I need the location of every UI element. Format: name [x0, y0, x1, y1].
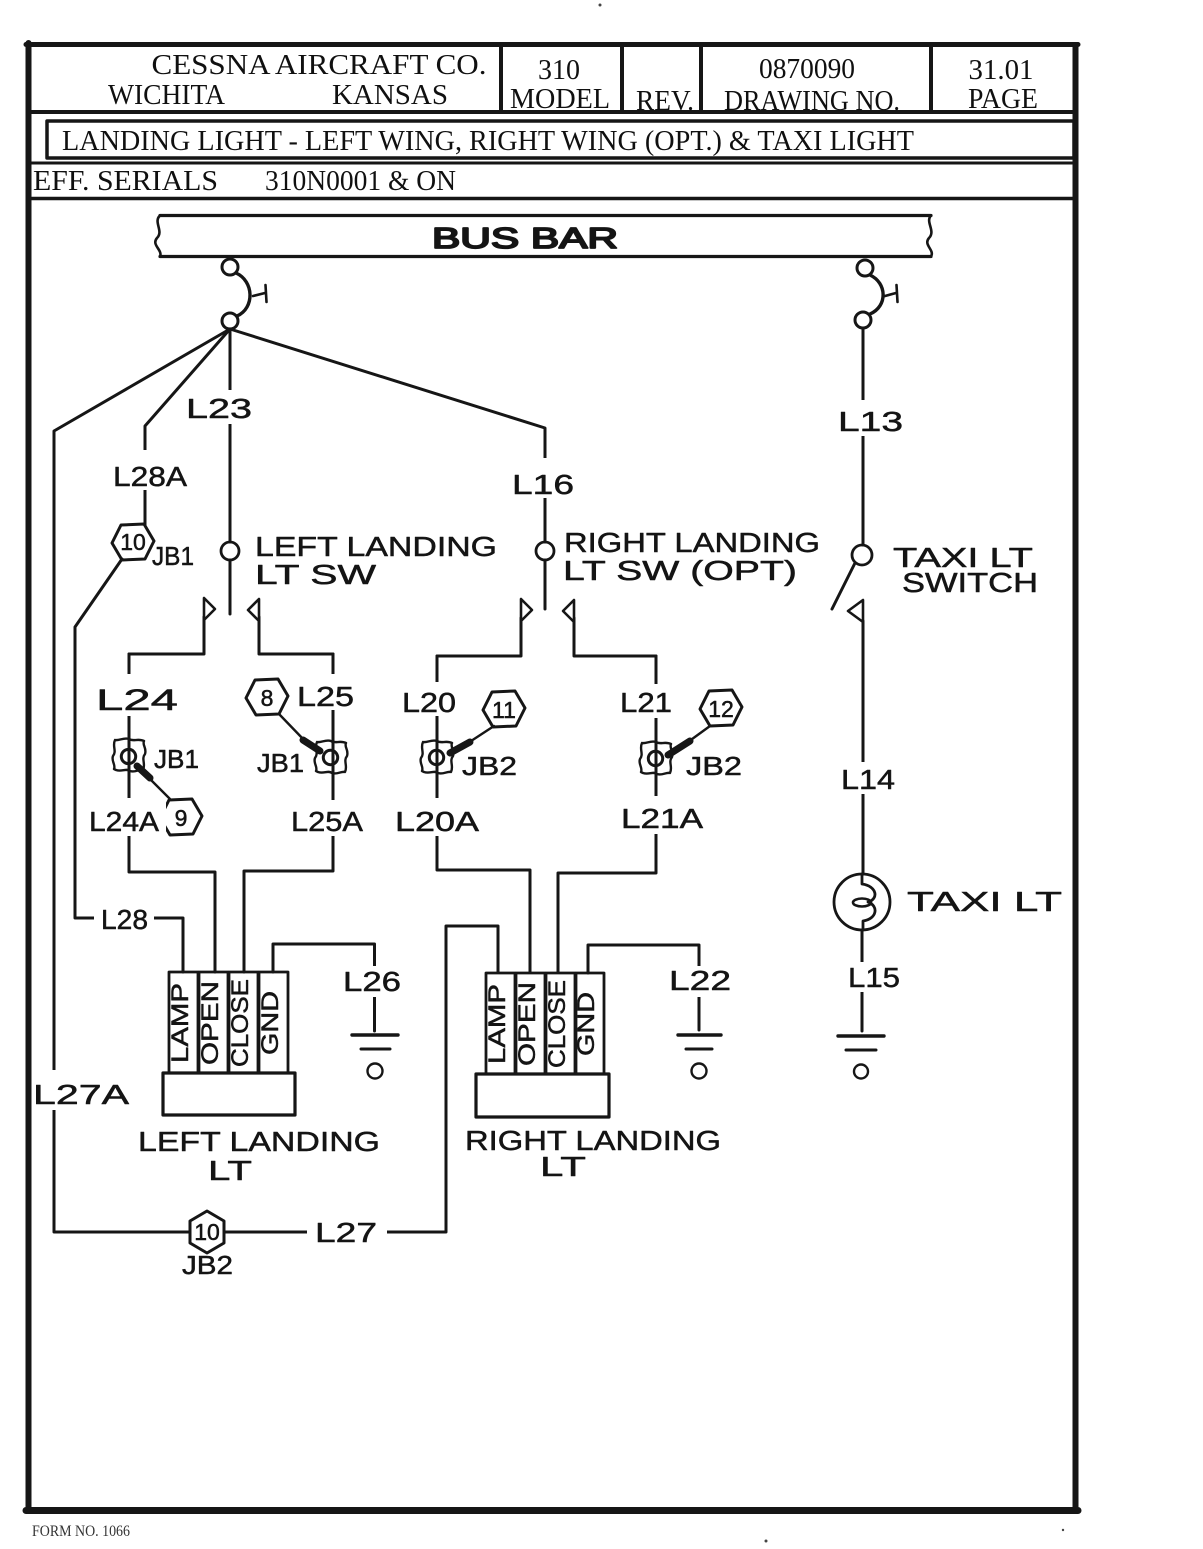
taxi light lamp: [834, 874, 890, 930]
title block row1 bottom line: [28, 110, 1075, 114]
svg-text:JB1: JB1: [152, 541, 194, 571]
svg-text:9: 9: [175, 805, 188, 831]
svg-text:L21A: L21A: [621, 803, 703, 834]
svg-text:L16: L16: [512, 469, 574, 500]
svg-text:OPEN: OPEN: [197, 981, 224, 1065]
page border bottom: [26, 1507, 1078, 1514]
title block divider page: [929, 45, 933, 112]
svg-text:LT SW (OPT): LT SW (OPT): [563, 555, 797, 586]
callout hexagon 9: [137, 766, 202, 835]
svg-text:10: 10: [120, 529, 146, 555]
svg-text:WICHITA: WICHITA: [108, 80, 226, 111]
svg-text:GND: GND: [257, 991, 284, 1055]
left landing light connector: [163, 972, 295, 1115]
svg-text:0870090: 0870090: [759, 54, 855, 85]
svg-text:LT SW: LT SW: [255, 559, 377, 590]
title row3 top line: [28, 162, 1075, 165]
svg-text:L24A: L24A: [89, 806, 159, 837]
svg-text:FORM NO. 1066: FORM NO. 1066: [32, 1523, 130, 1540]
ground taxi light: [838, 1036, 884, 1079]
svg-text:L23: L23: [186, 393, 252, 424]
svg-text:L24: L24: [96, 684, 178, 717]
wire L24 branch to OPEN pin: [129, 654, 215, 972]
right landing light switch: [437, 542, 656, 656]
callout hexagon 8: [246, 679, 320, 751]
title block divider rev: [620, 45, 624, 112]
svg-text:CLOSE: CLOSE: [544, 980, 571, 1068]
left landing light switch: [129, 542, 333, 654]
callout hexagon 12: [668, 690, 742, 755]
title block top border: [26, 42, 1078, 47]
junction JB2 hexagon 10: [190, 1211, 224, 1253]
svg-text:12: 12: [708, 696, 734, 722]
wire L28A from breaker to junction JB1: [145, 329, 230, 525]
right landing light connector: [476, 973, 609, 1117]
svg-text:GND: GND: [573, 992, 600, 1056]
svg-text:8: 8: [261, 685, 274, 711]
page border right: [1073, 45, 1079, 1511]
svg-text:310: 310: [538, 55, 580, 86]
wire L14 from taxi switch to taxi lamp: [862, 621, 865, 874]
svg-text:10: 10: [194, 1219, 220, 1245]
svg-text:L25A: L25A: [291, 806, 363, 837]
svg-text:JB2: JB2: [182, 1250, 233, 1280]
wire GND pin right unit to ground L22: [588, 945, 699, 1030]
svg-text:BUS BAR: BUS BAR: [432, 223, 618, 255]
svg-text:L22: L22: [669, 965, 731, 996]
svg-text:JB1: JB1: [257, 748, 304, 778]
terminal L24 JB1: [113, 738, 146, 771]
svg-text:LEFT LANDING: LEFT LANDING: [138, 1126, 380, 1157]
svg-text:L28A: L28A: [113, 461, 187, 492]
svg-text:JB2: JB2: [686, 751, 742, 781]
wire L20 branch to OPEN pin: [437, 656, 530, 972]
title block divider drawing no: [699, 45, 703, 112]
wire GND pin left unit to ground L26: [273, 944, 375, 1031]
svg-text:RIGHT LANDING: RIGHT LANDING: [564, 527, 820, 558]
svg-text:RIGHT LANDING: RIGHT LANDING: [465, 1125, 721, 1156]
wire L27A from breaker to JB2: [54, 329, 230, 1232]
svg-text:L20A: L20A: [395, 806, 479, 837]
title row2 box: [47, 121, 1074, 158]
wire L13 from breaker to taxi switch: [862, 329, 865, 545]
wire L23 from breaker to left landing switch: [229, 329, 232, 542]
wire L21 branch to CLOSE pin: [558, 656, 656, 972]
svg-text:JB2: JB2: [462, 751, 517, 781]
title block divider model: [499, 45, 503, 112]
terminal L25 JB1: [315, 740, 348, 773]
svg-text:L13: L13: [838, 406, 903, 437]
svg-text:SWITCH: SWITCH: [902, 567, 1038, 598]
svg-text:DRAWING NO.: DRAWING NO.: [724, 86, 900, 117]
svg-text:LAMP: LAMP: [167, 983, 194, 1063]
taxi light switch: [832, 545, 872, 622]
svg-text:CLOSE: CLOSE: [227, 979, 254, 1067]
svg-text:L21: L21: [620, 687, 672, 718]
svg-text:L25: L25: [297, 681, 354, 712]
bus bar: [155, 216, 932, 257]
title row3 bottom line: [28, 197, 1075, 201]
svg-text:KANSAS: KANSAS: [332, 80, 448, 111]
svg-text:LT: LT: [208, 1155, 252, 1186]
svg-text:LEFT LANDING: LEFT LANDING: [255, 531, 497, 562]
page border left: [26, 43, 32, 1511]
svg-text:L15: L15: [848, 962, 900, 993]
wire L27 from JB2 to right landing lamp pin: [224, 926, 498, 1232]
svg-text:L14: L14: [841, 764, 895, 795]
svg-text:LT: LT: [540, 1151, 586, 1182]
svg-text:L27: L27: [315, 1217, 377, 1248]
svg-text:11: 11: [492, 697, 516, 723]
svg-text:LAMP: LAMP: [484, 984, 511, 1064]
stray scan marks: [599, 4, 1065, 1543]
terminal L20 JB2: [421, 740, 454, 773]
svg-text:JB1: JB1: [154, 744, 199, 774]
svg-text:LANDING LIGHT - LEFT WING, RIG: LANDING LIGHT - LEFT WING, RIGHT WING (O…: [62, 126, 914, 157]
svg-text:PAGE: PAGE: [968, 84, 1038, 115]
svg-text:REV.: REV.: [636, 86, 694, 117]
circuit breaker right (taxi light): [855, 260, 898, 328]
wire L28 from junction JB1 to left landing lamp pin: [75, 559, 183, 972]
svg-text:310N0001 & ON: 310N0001 & ON: [265, 166, 456, 197]
terminal L21 JB2: [640, 741, 673, 774]
svg-text:TAXI LT: TAXI LT: [907, 886, 1062, 917]
svg-text:CESSNA AIRCRAFT CO.: CESSNA AIRCRAFT CO.: [152, 50, 487, 81]
callout hexagon 11: [450, 691, 525, 753]
svg-text:EFF. SERIALS: EFF. SERIALS: [33, 166, 218, 197]
svg-text:L27A: L27A: [33, 1079, 129, 1110]
circuit breaker left (landing lights): [222, 259, 267, 329]
svg-text:L28: L28: [101, 904, 148, 935]
wire L16 from breaker to right landing switch: [230, 329, 545, 542]
junction JB1 hexagon 10: [112, 524, 154, 560]
ground L22: [678, 1035, 721, 1079]
label gap masks: [33, 390, 910, 1248]
svg-text:OPEN: OPEN: [514, 982, 541, 1066]
svg-text:L20: L20: [402, 687, 456, 718]
ground L26: [352, 1035, 398, 1079]
svg-text:MODEL: MODEL: [510, 84, 610, 115]
wire L15 from taxi lamp to ground: [861, 930, 864, 1031]
wire L25 branch to CLOSE pin: [244, 654, 333, 972]
svg-text:L26: L26: [343, 966, 401, 997]
svg-text:31.01: 31.01: [969, 55, 1034, 86]
